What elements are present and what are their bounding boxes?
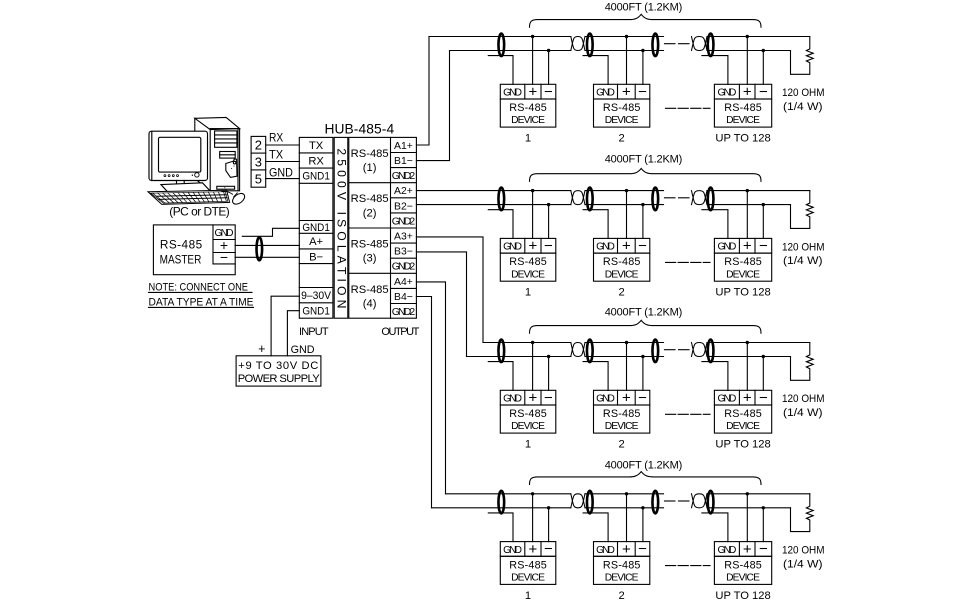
svg-text:A2+: A2+ xyxy=(394,186,413,197)
bus 1 device 2 GND stub wire xyxy=(583,56,608,85)
bus 3 length brace xyxy=(530,320,762,333)
svg-text:9–30V: 9–30V xyxy=(301,290,331,302)
svg-text:+: + xyxy=(743,541,752,558)
bus 3 cable continuation dashes xyxy=(665,349,676,351)
bus 1 cable loop 1 xyxy=(498,34,504,57)
bus 1 device 2 - junction xyxy=(641,49,644,52)
bus 2 device 1 + junction xyxy=(531,189,534,192)
svg-text:RS-485: RS-485 xyxy=(724,102,762,114)
bus 4 twisted-pair crossover 2 xyxy=(692,494,708,508)
svg-text:−: − xyxy=(759,83,768,100)
svg-text:GND: GND xyxy=(596,88,615,99)
bus 2 cable loop 3 xyxy=(652,188,658,211)
wire hub A4+ to bus 4 xyxy=(416,282,445,494)
svg-text:DEVICE: DEVICE xyxy=(511,269,545,280)
svg-text:TX: TX xyxy=(309,140,324,152)
svg-text:−: − xyxy=(638,541,647,558)
bus 3 device 2 + drop wire xyxy=(626,343,628,391)
bus 2 RS-485 device 1 xyxy=(500,238,556,253)
svg-text:RS-485: RS-485 xyxy=(724,559,762,571)
svg-text:RX: RX xyxy=(269,131,283,145)
bus 3 wire B (bottom) xyxy=(467,356,571,358)
svg-text:RS-485: RS-485 xyxy=(160,237,203,251)
svg-text:−: − xyxy=(759,389,768,406)
svg-text:RS-485: RS-485 xyxy=(603,559,641,571)
PC computer clip-art: mouse xyxy=(222,191,247,206)
svg-text:(PC or DTE): (PC or DTE) xyxy=(169,204,230,218)
bus 1 RS-485 device 1 xyxy=(500,84,556,99)
wire hub B1- to bus 1 xyxy=(416,51,449,161)
svg-text:+9 TO 30V DC: +9 TO 30V DC xyxy=(238,360,318,372)
svg-text:GND1: GND1 xyxy=(302,171,330,183)
bus 4 device 1 - drop wire xyxy=(548,508,550,542)
bus 4 RS-485 device 2 xyxy=(594,542,650,557)
svg-text:120 OHM: 120 OHM xyxy=(782,87,825,99)
bus 1 device 1 + junction xyxy=(531,35,534,38)
bus 3 device 1 + junction xyxy=(531,341,534,344)
bus 1 device row continuation dashes xyxy=(666,107,711,109)
bus 3 device 2 + junction xyxy=(625,341,628,344)
svg-text:UP TO 128: UP TO 128 xyxy=(715,439,770,451)
svg-text:GND: GND xyxy=(718,242,737,253)
bus 3 device 2 GND stub wire xyxy=(583,362,608,391)
bus 1 device 2 + junction xyxy=(625,35,628,38)
bus 1 wire A (top) xyxy=(429,36,571,38)
svg-text:(1): (1) xyxy=(363,162,377,174)
bus 4 wire A (top) xyxy=(446,493,571,495)
bus 3 cable loop 4 xyxy=(708,340,714,363)
svg-text:RS-485: RS-485 xyxy=(509,256,547,268)
svg-text:+: + xyxy=(743,238,752,255)
bus 4 device 1 - junction xyxy=(547,506,550,509)
svg-text:DEVICE: DEVICE xyxy=(511,115,545,126)
svg-text:4000FT (1.2KM): 4000FT (1.2KM) xyxy=(605,306,683,318)
bus 4 cable loop 2 xyxy=(587,491,593,514)
bus 4 device 1 + drop wire xyxy=(532,494,534,542)
twisted-pair loop on master cable xyxy=(257,237,263,260)
svg-text:B2−: B2− xyxy=(394,201,413,212)
svg-text:4000FT (1.2KM): 4000FT (1.2KM) xyxy=(605,154,683,166)
svg-text:−: − xyxy=(759,237,768,254)
svg-text:2: 2 xyxy=(619,439,625,451)
bus 1 cable continuation dashes xyxy=(665,43,676,45)
svg-text:2: 2 xyxy=(619,133,625,145)
svg-text:DATA TYPE AT A TIME: DATA TYPE AT A TIME xyxy=(149,296,254,308)
svg-text:1: 1 xyxy=(525,287,531,299)
bus 2 RS-485 device 2 xyxy=(594,238,650,253)
svg-text:(1/4 W): (1/4 W) xyxy=(783,407,823,419)
bus 1 length brace xyxy=(530,14,762,27)
bus 2 device 3 GND stub wire xyxy=(702,210,728,239)
svg-text:+: + xyxy=(743,84,752,101)
svg-text:+: + xyxy=(529,390,538,407)
bus 4 device 2 + junction xyxy=(625,492,628,495)
svg-text:RX: RX xyxy=(308,155,324,167)
wire hub A1+ to bus 1 xyxy=(416,37,429,146)
bus 4 device row continuation dashes xyxy=(666,565,711,567)
bus 2 device row continuation dashes xyxy=(666,261,711,263)
bus 3 device 3 + drop wire xyxy=(746,343,748,391)
bus 2 device 2 - junction xyxy=(641,203,644,206)
svg-text:(1/4 W): (1/4 W) xyxy=(783,101,823,113)
svg-text:B−: B− xyxy=(309,251,323,263)
bus 4 twisted-pair crossover 1 xyxy=(571,494,585,508)
svg-text:DEVICE: DEVICE xyxy=(511,421,545,432)
bus 2 wire B (bottom) xyxy=(416,204,570,206)
svg-text:DEVICE: DEVICE xyxy=(726,269,760,280)
svg-text:3: 3 xyxy=(255,154,262,169)
hub output groups column xyxy=(349,137,417,318)
bus 3 device 3 GND stub wire xyxy=(702,362,728,391)
bus 1 twisted-pair crossover 1 xyxy=(571,37,585,51)
wire master + to hub A+ xyxy=(235,244,299,246)
bus 2 device 1 + drop wire xyxy=(532,191,534,239)
isolation barrier 2500V ISOLATION xyxy=(334,137,348,318)
svg-text:GND2: GND2 xyxy=(392,216,416,227)
svg-text:A+: A+ xyxy=(309,236,323,248)
bus 2 cable loop 2 xyxy=(587,188,593,211)
svg-text:−: − xyxy=(638,237,647,254)
bus 2 length brace xyxy=(530,168,762,181)
svg-text:DEVICE: DEVICE xyxy=(726,421,760,432)
svg-text:(2): (2) xyxy=(363,207,377,219)
bus 2 termination resistor 120 OHM xyxy=(791,191,814,229)
wire master - to hub B- xyxy=(235,256,299,258)
wire RX (pin 2 to hub TX) xyxy=(266,144,300,146)
svg-text:A4+: A4+ xyxy=(394,277,413,288)
svg-text:DEVICE: DEVICE xyxy=(726,573,760,584)
svg-text:A1+: A1+ xyxy=(394,141,413,152)
bus 4 cable loop 1 xyxy=(498,491,504,514)
bus 2 wire A (top) xyxy=(416,190,570,192)
svg-text:GND: GND xyxy=(718,394,737,405)
bus 4 cable loop 3 xyxy=(652,491,658,514)
bus 3 device 2 - junction xyxy=(641,355,644,358)
bus 2 device 3 + drop wire xyxy=(746,191,748,239)
PC computer clip-art: keyboard xyxy=(148,190,230,204)
svg-text:UP TO 128: UP TO 128 xyxy=(715,133,770,145)
svg-text:DEVICE: DEVICE xyxy=(726,115,760,126)
svg-text:+: + xyxy=(529,541,538,558)
svg-text:GND: GND xyxy=(503,394,522,405)
bus 3 device row continuation dashes xyxy=(666,413,711,415)
bus 2 device 3 - junction xyxy=(762,203,765,206)
svg-text:A3+: A3+ xyxy=(394,231,413,242)
svg-text:NOTE: CONNECT ONE: NOTE: CONNECT ONE xyxy=(149,281,249,293)
connector DB9 pins 2/3/5 xyxy=(251,136,266,187)
svg-text:DEVICE: DEVICE xyxy=(605,269,639,280)
svg-text:DEVICE: DEVICE xyxy=(605,421,639,432)
wire TX (pin 3 to hub RX) xyxy=(266,161,300,163)
bus 1 device 3 + drop wire xyxy=(746,37,748,85)
svg-text:2: 2 xyxy=(619,590,625,600)
svg-text:RS-485: RS-485 xyxy=(351,148,389,160)
bus 3 twisted-pair crossover 1 xyxy=(571,343,585,357)
hub input terminal column xyxy=(299,137,333,318)
bus 1 device 3 GND stub wire xyxy=(702,56,728,85)
bus 3 device 1 - junction xyxy=(547,355,550,358)
bus 3 device 2 - drop wire xyxy=(642,357,644,391)
svg-text:POWER SUPPLY: POWER SUPPLY xyxy=(238,373,321,385)
svg-text:120 OHM: 120 OHM xyxy=(782,393,825,405)
svg-text:4000FT (1.2KM): 4000FT (1.2KM) xyxy=(605,459,683,471)
svg-text:1: 1 xyxy=(525,133,531,145)
wire hub B4- to bus 4 xyxy=(416,297,431,508)
bus 4 device 3 + junction xyxy=(746,492,749,495)
svg-text:1: 1 xyxy=(525,590,531,600)
svg-text:GND2: GND2 xyxy=(392,262,416,273)
bus 4 RS-485 device 3 xyxy=(714,542,771,557)
bus 3 cable loop 1 xyxy=(498,340,504,363)
svg-text:1: 1 xyxy=(525,439,531,451)
bus 4 RS-485 device 1 xyxy=(500,542,556,557)
bus 1 termination resistor 120 OHM xyxy=(791,37,814,75)
wire master GND (open stub to hub GND1) xyxy=(242,228,299,236)
svg-text:B1−: B1− xyxy=(394,156,413,167)
bus 2 device 2 + junction xyxy=(625,189,628,192)
svg-text:RS-485: RS-485 xyxy=(509,102,547,114)
svg-text:−: − xyxy=(544,389,553,406)
svg-text:+: + xyxy=(622,238,631,255)
bus 1 cable loop 4 xyxy=(708,34,714,57)
bus 2 device 1 - junction xyxy=(547,203,550,206)
bus 2 device 2 - drop wire xyxy=(642,205,644,239)
svg-text:−: − xyxy=(220,249,228,265)
bus 4 termination resistor 120 OHM xyxy=(791,494,814,532)
bus 4 device 1 GND stub wire xyxy=(488,513,513,542)
svg-text:+: + xyxy=(529,238,538,255)
PC computer clip-art: monitor xyxy=(149,131,210,193)
bus 2 cable loop 4 xyxy=(708,188,714,211)
bus 4 device 2 - junction xyxy=(641,506,644,509)
bus 3 cable loop 2 xyxy=(587,340,593,363)
svg-text:GND: GND xyxy=(503,545,522,556)
svg-text:GND1: GND1 xyxy=(302,222,330,234)
bus 3 device 3 - drop wire xyxy=(762,357,764,391)
svg-text:(3): (3) xyxy=(363,253,377,265)
svg-text:GND: GND xyxy=(596,242,615,253)
svg-text:MASTER: MASTER xyxy=(160,253,202,267)
power supply box +9 TO 30V DC xyxy=(236,356,321,386)
svg-text:DEVICE: DEVICE xyxy=(511,573,545,584)
svg-text:UP TO 128: UP TO 128 xyxy=(715,287,770,299)
bus 1 twisted-pair crossover 2 xyxy=(692,37,708,51)
bus 3 RS-485 device 1 xyxy=(500,390,556,405)
PC computer clip-art: tower xyxy=(195,117,240,190)
svg-text:DEVICE: DEVICE xyxy=(605,115,639,126)
svg-text:+: + xyxy=(258,342,265,356)
svg-text:120 OHM: 120 OHM xyxy=(782,241,825,253)
svg-text:RS-485: RS-485 xyxy=(724,256,762,268)
bus 3 wire A (top) xyxy=(483,342,571,344)
svg-text:120 OHM: 120 OHM xyxy=(782,545,825,557)
bus 4 device 3 - junction xyxy=(762,506,765,509)
bus 3 device 3 - junction xyxy=(762,355,765,358)
bus 1 cable loop 2 xyxy=(587,34,593,57)
bus 2 twisted-pair crossover 2 xyxy=(692,191,708,205)
svg-text:RS-485: RS-485 xyxy=(509,408,547,420)
bus 3 termination resistor 120 OHM xyxy=(791,343,814,381)
bus 1 device 3 + junction xyxy=(746,35,749,38)
wire hub B3- to bus 3 xyxy=(416,252,466,357)
svg-text:RS-485: RS-485 xyxy=(603,408,641,420)
svg-text:GND: GND xyxy=(503,88,522,99)
bus 4 device 2 + drop wire xyxy=(626,494,628,542)
bus 2 twisted-pair crossover 1 xyxy=(571,191,585,205)
bus 2 device 2 + drop wire xyxy=(626,191,628,239)
bus 3 device 3 + junction xyxy=(746,341,749,344)
svg-text:INPUT: INPUT xyxy=(299,326,329,338)
svg-text:+: + xyxy=(622,84,631,101)
bus 1 RS-485 device 2 xyxy=(594,84,650,99)
RS-485 MASTER box xyxy=(153,225,235,275)
bus 2 device 1 - drop wire xyxy=(548,205,550,239)
svg-text:GND: GND xyxy=(596,545,615,556)
svg-text:+: + xyxy=(529,84,538,101)
bus 4 device 2 GND stub wire xyxy=(583,513,608,542)
bus 1 device 3 - drop wire xyxy=(762,51,764,85)
svg-text:−: − xyxy=(544,541,553,558)
wire GND (pin 5 to hub GND1) xyxy=(266,178,300,180)
svg-text:RS-485: RS-485 xyxy=(351,193,389,205)
svg-text:(1/4 W): (1/4 W) xyxy=(783,255,823,267)
bus 2 device 3 - drop wire xyxy=(762,205,764,239)
svg-text:RS-485: RS-485 xyxy=(509,559,547,571)
svg-text:GND1: GND1 xyxy=(302,306,330,318)
svg-text:−: − xyxy=(544,83,553,100)
svg-text:DEVICE: DEVICE xyxy=(605,573,639,584)
svg-text:RS-485: RS-485 xyxy=(351,284,389,296)
bus 4 wire B (bottom) xyxy=(432,507,571,509)
svg-text:GND: GND xyxy=(503,242,522,253)
svg-text:GND: GND xyxy=(269,165,293,179)
svg-text:4000FT (1.2KM): 4000FT (1.2KM) xyxy=(605,1,683,13)
bus 1 device 1 GND stub wire xyxy=(488,56,513,85)
svg-text:5: 5 xyxy=(255,171,262,186)
svg-text:2500V ISOLATION: 2500V ISOLATION xyxy=(334,148,348,308)
bus 2 device 1 GND stub wire xyxy=(488,210,513,239)
bus 4 device 1 + junction xyxy=(531,492,534,495)
svg-text:B3−: B3− xyxy=(394,247,413,258)
bus 2 RS-485 device 3 xyxy=(714,238,771,253)
svg-text:(4): (4) xyxy=(363,298,377,310)
bus 4 device 2 - drop wire xyxy=(642,508,644,542)
master terminal column GND/+/- xyxy=(212,225,214,264)
bus 4 device 3 GND stub wire xyxy=(702,513,728,542)
bus 2 cable continuation dashes xyxy=(665,197,676,199)
wire power supply GND to hub GND1 xyxy=(287,311,299,356)
svg-text:−: − xyxy=(759,541,768,558)
bus 4 device 3 + drop wire xyxy=(746,494,748,542)
bus 1 device 1 + drop wire xyxy=(532,37,534,85)
bus 2 cable loop 1 xyxy=(498,188,504,211)
bus 3 twisted-pair crossover 2 xyxy=(692,343,708,357)
svg-text:B4−: B4− xyxy=(394,292,413,303)
bus 1 device 1 - junction xyxy=(547,49,550,52)
svg-text:+: + xyxy=(622,390,631,407)
svg-text:GND: GND xyxy=(718,545,737,556)
bus 2 device 2 GND stub wire xyxy=(583,210,608,239)
bus 4 cable continuation dashes xyxy=(665,500,676,502)
bus 1 device 3 - junction xyxy=(762,49,765,52)
svg-text:2: 2 xyxy=(255,138,262,153)
svg-text:OUTPUT: OUTPUT xyxy=(381,326,419,338)
bus 4 cable loop 4 xyxy=(708,491,714,514)
wire power supply + to hub 9-30V xyxy=(271,296,299,356)
svg-text:RS-485: RS-485 xyxy=(724,408,762,420)
bus 3 device 1 + drop wire xyxy=(532,343,534,391)
bus 3 device 1 - drop wire xyxy=(548,357,550,391)
bus 4 length brace xyxy=(530,472,762,485)
bus 3 device 1 GND stub wire xyxy=(488,362,513,391)
bus 1 device 2 - drop wire xyxy=(642,51,644,85)
bus 1 cable loop 3 xyxy=(652,34,658,57)
bus 1 device 2 + drop wire xyxy=(626,37,628,85)
svg-text:GND: GND xyxy=(718,88,737,99)
bus 1 device 1 - drop wire xyxy=(548,51,550,85)
svg-text:−: − xyxy=(638,83,647,100)
wire hub A3+ to bus 3 xyxy=(416,237,483,343)
svg-text:UP TO 128: UP TO 128 xyxy=(715,590,770,600)
bus 1 RS-485 device 3 xyxy=(714,84,771,99)
svg-text:RS-485: RS-485 xyxy=(603,256,641,268)
svg-text:+: + xyxy=(622,541,631,558)
svg-text:GND: GND xyxy=(596,394,615,405)
svg-text:GND2: GND2 xyxy=(392,171,416,182)
svg-text:HUB-485-4: HUB-485-4 xyxy=(324,122,394,137)
bus 1 wire B (bottom) xyxy=(450,50,571,52)
svg-text:GND2: GND2 xyxy=(392,307,416,318)
bus 3 cable loop 3 xyxy=(652,340,658,363)
svg-text:TX: TX xyxy=(269,148,283,162)
svg-text:2: 2 xyxy=(619,287,625,299)
bus 4 device 3 - drop wire xyxy=(762,508,764,542)
svg-text:GND: GND xyxy=(291,344,315,356)
bus 3 RS-485 device 2 xyxy=(594,390,650,405)
svg-text:+: + xyxy=(743,390,752,407)
bus 3 RS-485 device 3 xyxy=(714,390,771,405)
bus 2 device 3 + junction xyxy=(746,189,749,192)
svg-text:RS-485: RS-485 xyxy=(351,238,389,250)
svg-text:RS-485: RS-485 xyxy=(603,102,641,114)
svg-text:−: − xyxy=(638,389,647,406)
svg-text:−: − xyxy=(544,237,553,254)
svg-text:(1/4 W): (1/4 W) xyxy=(783,558,823,570)
